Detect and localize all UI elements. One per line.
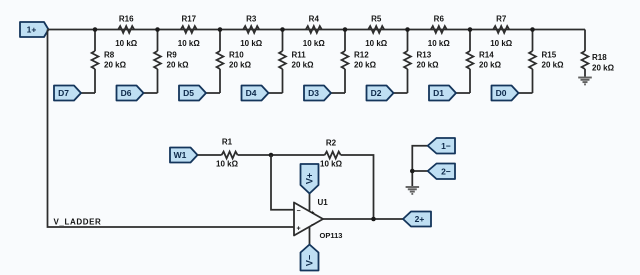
svg-text:20 kΩ: 20 kΩ xyxy=(229,61,252,70)
svg-text:20 kΩ: 20 kΩ xyxy=(167,61,190,70)
tag V- negative supply xyxy=(301,227,319,271)
svg-text:R16: R16 xyxy=(119,15,134,24)
svg-text:R17: R17 xyxy=(181,15,196,24)
tag D0 digital input xyxy=(492,86,533,101)
resistor R2 10 k feedback xyxy=(320,139,343,169)
svg-text:R12: R12 xyxy=(354,51,369,60)
svg-text:10 kΩ: 10 kΩ xyxy=(240,39,263,48)
svg-text:D1: D1 xyxy=(433,88,444,98)
wire: summing node down to inverting input xyxy=(271,155,294,210)
svg-text:+: + xyxy=(297,226,301,233)
resistor R4 10 k ladder series xyxy=(303,15,326,49)
svg-text:R18: R18 xyxy=(592,53,607,62)
tag 1- scope channel 1 negative xyxy=(428,138,455,154)
wire: W1 to R1 xyxy=(198,154,222,156)
wire: R1 to summing node to R2 xyxy=(238,154,325,156)
svg-text:20 kΩ: 20 kΩ xyxy=(542,61,565,70)
resistor R5 10 k ladder series xyxy=(365,15,388,49)
svg-text:−: − xyxy=(311,223,315,229)
ground: ladder terminator xyxy=(578,78,592,85)
svg-text:20 kΩ: 20 kΩ xyxy=(417,61,440,70)
svg-text:V−: V− xyxy=(305,255,315,266)
svg-text:R2: R2 xyxy=(326,139,337,148)
tag D7 digital input xyxy=(54,86,95,101)
tag 2+ scope channel 2 positive xyxy=(403,212,431,227)
resistor R7 10 k ladder series xyxy=(490,15,513,49)
svg-text:20 kΩ: 20 kΩ xyxy=(479,61,502,70)
svg-text:+: + xyxy=(311,211,315,217)
node: ladder junction x=282 xyxy=(280,27,285,32)
svg-text:2−: 2− xyxy=(441,167,451,177)
svg-text:2+: 2+ xyxy=(415,214,425,224)
svg-text:10 kΩ: 10 kΩ xyxy=(320,160,343,169)
svg-text:V_LADDER: V_LADDER xyxy=(54,218,102,227)
svg-text:20 kΩ: 20 kΩ xyxy=(592,64,615,73)
svg-text:20 kΩ: 20 kΩ xyxy=(104,61,127,70)
svg-text:D3: D3 xyxy=(308,88,319,98)
svg-text:D0: D0 xyxy=(496,88,507,98)
tag W1 waveform generator xyxy=(170,148,198,163)
wire: op-amp output xyxy=(323,218,403,220)
resistor R14 20 k ladder shunt xyxy=(467,30,502,94)
svg-text:D7: D7 xyxy=(58,88,69,98)
tag D6 digital input xyxy=(117,86,158,101)
node: ladder junction x=345 xyxy=(343,27,348,32)
svg-text:D6: D6 xyxy=(121,88,132,98)
node: ladder junction x=470 xyxy=(468,27,473,32)
resistor R16 10 k ladder series xyxy=(115,15,138,49)
resistor R10 20 k ladder shunt xyxy=(217,30,252,94)
resistor R13 20 k ladder shunt xyxy=(404,30,439,94)
tag D5 digital input xyxy=(179,86,220,101)
wire: scope returns to ground xyxy=(412,146,427,186)
svg-text:10 kΩ: 10 kΩ xyxy=(428,39,451,48)
svg-text:20 kΩ: 20 kΩ xyxy=(292,61,315,70)
node: ladder junction x=157 xyxy=(155,27,160,32)
svg-text:R1: R1 xyxy=(222,138,233,147)
tag 1+ (scope channel 1 positive) xyxy=(20,22,49,37)
resistor R3 10 k ladder series xyxy=(240,15,263,49)
node: output junction xyxy=(371,217,376,222)
resistor R18 20 k ladder terminator xyxy=(582,30,615,77)
node: ladder junction x=95 xyxy=(93,27,98,32)
svg-text:1+: 1+ xyxy=(27,25,37,35)
svg-text:10 kΩ: 10 kΩ xyxy=(216,160,239,169)
svg-text:R9: R9 xyxy=(167,51,178,60)
resistor R12 20 k ladder shunt xyxy=(342,30,377,94)
svg-text:−: − xyxy=(297,208,301,215)
tag V+ positive supply xyxy=(301,164,319,211)
node: scope ground junction xyxy=(410,169,415,174)
svg-text:R15: R15 xyxy=(542,51,557,60)
svg-text:1−: 1− xyxy=(441,141,451,151)
svg-text:D5: D5 xyxy=(183,88,194,98)
svg-text:D2: D2 xyxy=(371,88,382,98)
svg-text:10 kΩ: 10 kΩ xyxy=(303,39,326,48)
resistor R8 20 k ladder shunt xyxy=(92,30,127,94)
svg-text:R6: R6 xyxy=(434,15,445,24)
svg-text:R10: R10 xyxy=(229,51,244,60)
svg-text:R11: R11 xyxy=(292,51,307,60)
svg-text:V+: V+ xyxy=(305,173,315,184)
svg-text:10 kΩ: 10 kΩ xyxy=(115,39,138,48)
resistor R9 20 k ladder shunt xyxy=(154,30,189,94)
node: ladder junction x=220 xyxy=(218,27,223,32)
svg-text:10 kΩ: 10 kΩ xyxy=(178,39,201,48)
resistor R11 20 k ladder shunt xyxy=(279,30,314,94)
svg-text:R3: R3 xyxy=(246,15,257,24)
resistor R6 10 k ladder series xyxy=(428,15,451,49)
tag D4 digital input xyxy=(242,86,283,101)
tag 2- scope channel 2 negative xyxy=(428,164,455,180)
node: summing junction xyxy=(269,153,274,158)
svg-text:20 kΩ: 20 kΩ xyxy=(354,61,377,70)
tag D2 digital input xyxy=(367,86,408,101)
svg-text:R5: R5 xyxy=(371,15,382,24)
tag D1 digital input xyxy=(429,86,470,101)
resistor R15 20 k ladder shunt xyxy=(529,30,564,94)
ground: scope reference xyxy=(406,187,420,194)
svg-text:R13: R13 xyxy=(417,51,432,60)
tag D3 digital input xyxy=(304,86,345,101)
resistor R17 10 k ladder series xyxy=(178,15,201,49)
wire: R2 to output node xyxy=(341,155,374,219)
svg-text:W1: W1 xyxy=(174,150,187,160)
wire: top ladder rail xyxy=(48,29,586,31)
svg-text:10 kΩ: 10 kΩ xyxy=(365,39,388,48)
svg-text:U1: U1 xyxy=(318,198,329,207)
resistor R1 10 k input xyxy=(216,138,239,169)
svg-text:10 kΩ: 10 kΩ xyxy=(490,39,513,48)
node: ladder junction x=532 xyxy=(530,27,535,32)
svg-text:D4: D4 xyxy=(246,88,257,98)
svg-text:OP113: OP113 xyxy=(320,231,343,240)
svg-text:R14: R14 xyxy=(479,51,494,60)
svg-text:R7: R7 xyxy=(496,15,507,24)
svg-text:R4: R4 xyxy=(309,15,320,24)
wire: V_LADDER net from tag 1+ down and across to op-amp xyxy=(48,30,295,228)
svg-text:R8: R8 xyxy=(104,51,115,60)
op-amp U1 OP113 xyxy=(294,198,342,240)
node: ladder junction x=407 xyxy=(405,27,410,32)
